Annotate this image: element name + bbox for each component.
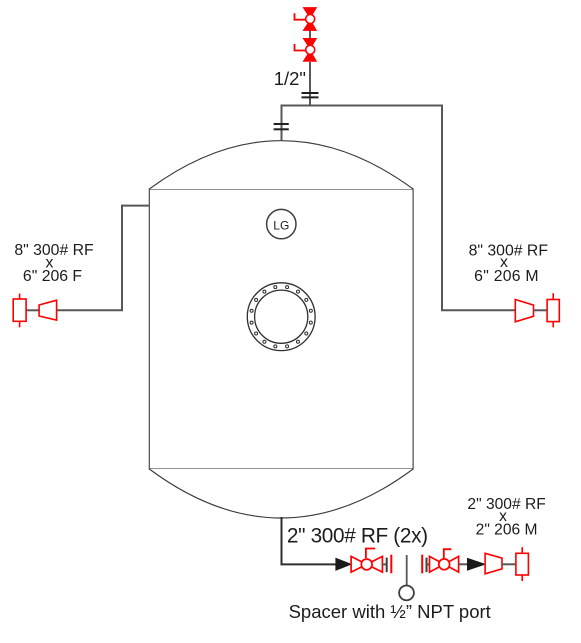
wire: left between flange and reducer xyxy=(26,309,39,311)
svg-text:Spacer with ½” NPT port: Spacer with ½” NPT port xyxy=(289,601,491,622)
reducer right mid xyxy=(515,300,533,322)
vessel top head xyxy=(149,141,413,189)
wire: top nozzle vertical into vessel xyxy=(281,106,283,141)
svg-text:6" 206 F: 6" 206 F xyxy=(23,268,83,285)
svg-text:8" 300# RF: 8" 300# RF xyxy=(469,242,549,259)
label left mid: 8" 300# RF x 6" 206 F xyxy=(14,242,94,285)
instrument LG xyxy=(267,209,296,238)
flange pair A with spacer gap xyxy=(387,555,392,574)
svg-text:2" 300# RF (2x): 2" 300# RF (2x) xyxy=(287,525,428,548)
wire: vent branch vertical xyxy=(309,31,311,106)
svg-text:2" 206 M: 2" 206 M xyxy=(476,522,538,539)
vessel shell xyxy=(149,189,413,469)
label bottom right: 2" 300# RF x 2" 206 M xyxy=(467,496,545,539)
flange adapter right mid xyxy=(547,293,559,327)
wire: right mid between reducer and flange xyxy=(534,309,548,311)
wire: right header vertical xyxy=(441,105,443,311)
arrow flow left xyxy=(335,558,352,571)
reducer bottom xyxy=(485,553,502,574)
svg-text:8" 300# RF: 8" 300# RF xyxy=(14,242,94,259)
wire: reducer to flange bottom xyxy=(502,563,516,565)
wire: flange B to valve B xyxy=(427,563,431,565)
svg-text:LG: LG xyxy=(273,219,289,233)
wire: bottom nozzle vertical xyxy=(281,517,283,564)
wire: valve A to flange xyxy=(382,563,386,565)
label bottom: 2" 300# RF (2x) xyxy=(287,525,428,548)
label 1/2" xyxy=(274,68,306,89)
wire: right nozzle horizontal xyxy=(441,309,516,311)
wire: left vertical drop xyxy=(121,205,123,311)
valve A bottom left (outline) xyxy=(351,549,382,573)
flange pair on vessel top nozzle xyxy=(274,124,289,129)
svg-text:1/2": 1/2" xyxy=(274,68,306,89)
spacer with NPT port xyxy=(399,555,414,600)
flange adapter bottom xyxy=(516,547,529,581)
wire: left nozzle horizontal from vessel xyxy=(122,205,149,207)
flange adapter left mid xyxy=(13,294,26,328)
reducer left mid xyxy=(39,300,57,320)
arrow flow right xyxy=(467,558,486,571)
flange pair B xyxy=(422,555,426,574)
wire: top header horizontal xyxy=(281,105,444,107)
wire: left horizontal to reducer xyxy=(57,309,123,311)
label right mid: 8" 300# RF x 6" 206 M xyxy=(469,242,549,285)
valve V2 vent (lower, filled) xyxy=(295,38,318,62)
wire: bottom horizontal to arrow xyxy=(281,563,337,565)
svg-text:6" 206 M: 6" 206 M xyxy=(474,268,539,285)
flange pair below vent valves xyxy=(302,93,319,97)
vessel bottom head xyxy=(149,469,413,518)
label spacer note xyxy=(289,601,491,622)
valve B bottom right (outline) xyxy=(430,549,459,572)
manway flange xyxy=(247,283,315,351)
wire: valve B to arrow xyxy=(459,563,468,565)
valve V1 vent (top, filled) xyxy=(295,7,318,31)
